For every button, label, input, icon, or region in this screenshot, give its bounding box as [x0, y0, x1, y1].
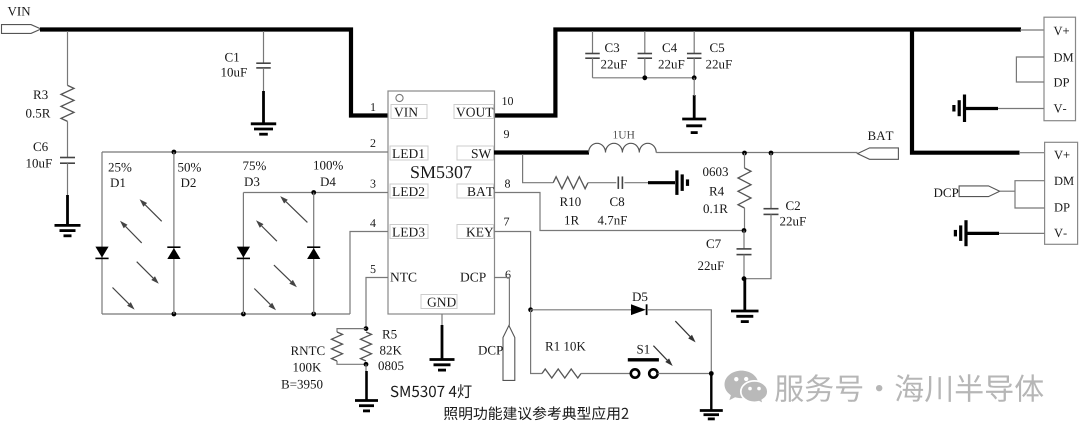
- watermark text 服务号·海川半导体: [775, 374, 1043, 402]
- wire DCP pin: [494, 278, 509, 326]
- LED D2: [167, 163, 201, 259]
- wire rail to C3: [592, 31, 594, 54]
- pin 8 label BAT: [457, 184, 494, 198]
- ground S1: [700, 374, 723, 419]
- ground C1: [251, 91, 276, 134]
- diode D5: [631, 293, 647, 316]
- wire C5 to bus: [693, 58, 695, 78]
- net tag DCP key: [478, 326, 514, 381]
- node rail D3: [241, 312, 246, 317]
- node bus C4: [642, 75, 647, 80]
- pin 5 label NTC: [390, 273, 416, 282]
- press arrows S1: [653, 321, 695, 366]
- node NTC top: [364, 326, 369, 331]
- pin 6 label DCP: [460, 273, 485, 282]
- node D4 anode: [311, 190, 316, 195]
- capacitor C5: [687, 43, 732, 68]
- wire C7 to ground node: [743, 255, 745, 279]
- ground IC GND: [430, 360, 455, 371]
- ground C6: [55, 195, 81, 236]
- resistor R1: [542, 342, 586, 378]
- caption text 照明功能建议参考典型应用2: [444, 406, 628, 420]
- node NTC bottom: [364, 362, 369, 367]
- pin 4 label LED3: [390, 225, 428, 239]
- wire R10 to C8: [588, 182, 616, 184]
- switch S1: [628, 345, 659, 378]
- node rail D2: [172, 312, 177, 317]
- capacitor C2: [744, 153, 806, 279]
- LED D4: [307, 161, 343, 259]
- wire VOUT to USB2 V+: [912, 30, 1020, 153]
- wire J2 V-: [967, 232, 1045, 234]
- wire RNTC bottom bracket: [337, 361, 366, 364]
- node R4 top: [742, 151, 747, 156]
- wire C1 to ground: [263, 68, 265, 92]
- wire C6 to ground: [67, 163, 69, 196]
- pin 1 label VIN: [391, 105, 427, 119]
- capacitor C8: [598, 176, 627, 224]
- USB input connector J2: [1045, 142, 1078, 244]
- wire LED3 net: [350, 232, 388, 315]
- wire cap ground bus: [593, 77, 695, 79]
- wire C4 to bus: [644, 58, 646, 78]
- resistor R3: [26, 85, 74, 121]
- op-amp-style IC U1 SM5307 body: [388, 91, 495, 314]
- pin number 1: [371, 103, 375, 111]
- pin number 5: [371, 265, 376, 273]
- wire D4 branch: [313, 193, 315, 315]
- wire D3 branch: [242, 193, 244, 315]
- node S1 ground: [709, 371, 714, 376]
- light emission arrows D1 D2: [113, 199, 162, 309]
- inductor L1 1UH: [589, 131, 657, 153]
- wire BAT net: [656, 152, 857, 154]
- capacitor C3: [585, 43, 627, 68]
- wire D2 branch: [173, 152, 175, 314]
- wire BAT pin net: [494, 193, 744, 231]
- wire D1 branch: [101, 152, 103, 314]
- J2 DM DP short bracket: [1015, 181, 1045, 208]
- light emission arrows D3 D4: [254, 196, 307, 310]
- pin number 6: [506, 271, 511, 279]
- ground USB2 rotated: [955, 220, 966, 246]
- wire DCP tag to bracket: [1000, 190, 1015, 192]
- ground output caps: [682, 78, 706, 133]
- net tag BAT: [858, 131, 899, 159]
- pin GND label: [421, 295, 457, 309]
- wire SW to R10: [523, 154, 554, 183]
- wire R3 to C6: [67, 121, 69, 157]
- wire VIN to R3: [67, 31, 69, 85]
- node C7 C2 ground: [742, 276, 747, 281]
- title text SM5307 4灯: [391, 384, 472, 398]
- wire rail to C4: [644, 31, 646, 54]
- wire to C7: [743, 231, 745, 250]
- wire KEY pin: [494, 232, 531, 310]
- wire NTC pin: [366, 278, 388, 329]
- wire to USB2 V+: [1019, 152, 1045, 154]
- LED D1: [95, 163, 131, 259]
- USB output connector J1: [1044, 17, 1076, 121]
- pin number 3: [371, 180, 376, 188]
- ground USB1 rotated: [954, 95, 965, 123]
- capacitor C1: [222, 53, 271, 77]
- node BAT divider: [742, 228, 747, 233]
- pin number 2: [371, 139, 376, 147]
- ground C7 C2: [731, 279, 759, 322]
- pin 9 label SW: [457, 146, 494, 160]
- wire VIN rail to pin1: [40, 30, 390, 116]
- wire SW pin: [494, 150, 589, 154]
- pin 3 label LED2: [390, 184, 428, 198]
- pin number 4: [370, 219, 376, 227]
- wire rail to C5: [693, 31, 695, 54]
- node rail D4: [311, 312, 316, 317]
- wire J1 V-: [965, 108, 1044, 110]
- net label VIN: [8, 7, 31, 16]
- resistor R10: [553, 177, 588, 225]
- wire LED cathode rail: [102, 313, 350, 315]
- net tag DCP input: [934, 186, 1000, 197]
- IC name SM5307: [411, 166, 471, 178]
- ground NTC divider: [355, 364, 378, 411]
- ground C8 rotated: [677, 170, 688, 195]
- wire KEY to R1: [531, 310, 542, 374]
- resistor RNTC: [281, 332, 342, 389]
- pin number 9: [504, 130, 509, 138]
- wire VOUT rail: [494, 30, 1021, 116]
- pin 2 label LED1: [390, 146, 428, 160]
- capacitor C4: [638, 43, 685, 68]
- wire to R4: [744, 153, 746, 168]
- net tag VIN: [2, 25, 42, 34]
- resistor R5: [361, 330, 404, 370]
- LED D3: [237, 161, 266, 258]
- wire R4 to BAT node: [744, 208, 746, 231]
- capacitor C6: [27, 142, 75, 167]
- wire RNTC top bracket: [337, 329, 366, 332]
- node KEY: [528, 307, 533, 312]
- node D2 anode: [172, 150, 177, 155]
- wire LED1 net: [102, 151, 388, 153]
- wire R1 to S1: [581, 373, 630, 375]
- node bus C5: [692, 75, 697, 80]
- wire KEY to D5: [531, 309, 631, 311]
- wire S1 to ground node: [658, 373, 712, 375]
- J1 DM DP short bracket: [1016, 57, 1044, 82]
- pin number 7: [504, 218, 509, 226]
- wire GND pin: [441, 314, 443, 359]
- wire C8 to ground: [624, 182, 675, 184]
- wire rail to USB1 V+: [1020, 29, 1044, 31]
- pin number 8: [505, 180, 510, 188]
- wire LED2 net: [243, 192, 388, 194]
- pin number 10: [503, 97, 513, 105]
- node C2 top: [769, 151, 774, 156]
- watermark WeChat icon: [725, 371, 768, 405]
- wire D5 to S1 node: [647, 310, 711, 374]
- pin 7 label KEY: [457, 225, 494, 239]
- resistor R4: [703, 167, 751, 213]
- wire rail to C1: [263, 31, 265, 63]
- pin 10 label VOUT: [454, 105, 494, 119]
- capacitor C7: [698, 239, 751, 270]
- wire C3 to bus: [592, 58, 594, 78]
